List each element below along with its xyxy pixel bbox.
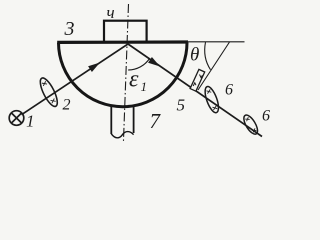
svg-text:ε: ε <box>129 67 139 93</box>
angle arc epsilon1 <box>128 58 149 70</box>
arrow on exit ray <box>148 57 160 67</box>
light source 1 <box>9 111 24 126</box>
arrow on incident ray <box>88 63 100 73</box>
incident ray from source through lens 2 to center <box>22 44 129 115</box>
lens 6 (eyepiece) <box>241 113 260 136</box>
slit plate 5 <box>190 69 205 91</box>
svg-text:5: 5 <box>177 96 186 115</box>
svg-text:2: 2 <box>63 97 71 114</box>
steep construction line to slit 5 <box>198 42 230 90</box>
svg-text:ч: ч <box>107 3 115 22</box>
tube 7 below semicylinder <box>111 105 133 138</box>
semicylinder 3 (half-disc body) <box>57 42 188 107</box>
condenser lens 2 <box>37 76 61 109</box>
exit ray through slit 5 and lenses 6 <box>128 44 262 137</box>
svg-text:7: 7 <box>150 109 162 133</box>
svg-text:3: 3 <box>64 18 75 40</box>
sample block 4 <box>104 21 147 43</box>
lens 6 (objective) <box>202 85 221 114</box>
svg-text:6: 6 <box>225 82 233 99</box>
horizontal reference line (flat face extension) <box>187 41 245 43</box>
svg-text:1: 1 <box>26 112 35 131</box>
svg-text:θ: θ <box>190 45 199 66</box>
optical axis (vertical dash-dot line) <box>123 4 128 143</box>
svg-text:6: 6 <box>262 108 270 125</box>
svg-text:1: 1 <box>141 79 148 94</box>
angle arc theta <box>205 42 211 69</box>
